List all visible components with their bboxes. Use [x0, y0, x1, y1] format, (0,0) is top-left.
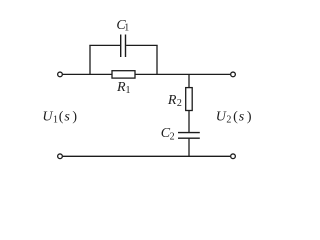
capacitor C2 — [178, 133, 200, 139]
resistor R1 — [112, 71, 135, 78]
svg-text:2: 2 — [177, 98, 182, 109]
svg-text:R: R — [116, 80, 126, 95]
wire bottom rail — [63, 155, 231, 157]
wire parallel-loop top right horizontal — [126, 44, 158, 46]
terminal bottom-right — [231, 154, 236, 159]
svg-text:R: R — [167, 93, 177, 108]
wire junction to R2 — [188, 74, 190, 87]
capacitor C1 — [121, 35, 126, 58]
terminal output top-right — [231, 72, 236, 77]
wire parallel-loop top left horizontal — [89, 44, 120, 46]
wire top rail left segment — [63, 73, 112, 75]
svg-text:1: 1 — [126, 85, 131, 96]
svg-text:U2(s): U2(s) — [216, 109, 252, 125]
wire parallel-loop right vertical — [156, 45, 158, 74]
wire parallel-loop left vertical — [89, 45, 91, 74]
svg-text:U1(s): U1(s) — [42, 109, 77, 125]
svg-text:1: 1 — [124, 22, 129, 33]
terminal bottom-left — [58, 154, 63, 159]
terminal input top-left — [58, 72, 63, 77]
wire C2 to bottom rail — [188, 138, 190, 156]
wire top rail middle segment — [135, 73, 230, 75]
wire R2 to C2 — [188, 111, 190, 133]
resistor R2 — [186, 88, 193, 111]
svg-text:2: 2 — [170, 131, 175, 142]
